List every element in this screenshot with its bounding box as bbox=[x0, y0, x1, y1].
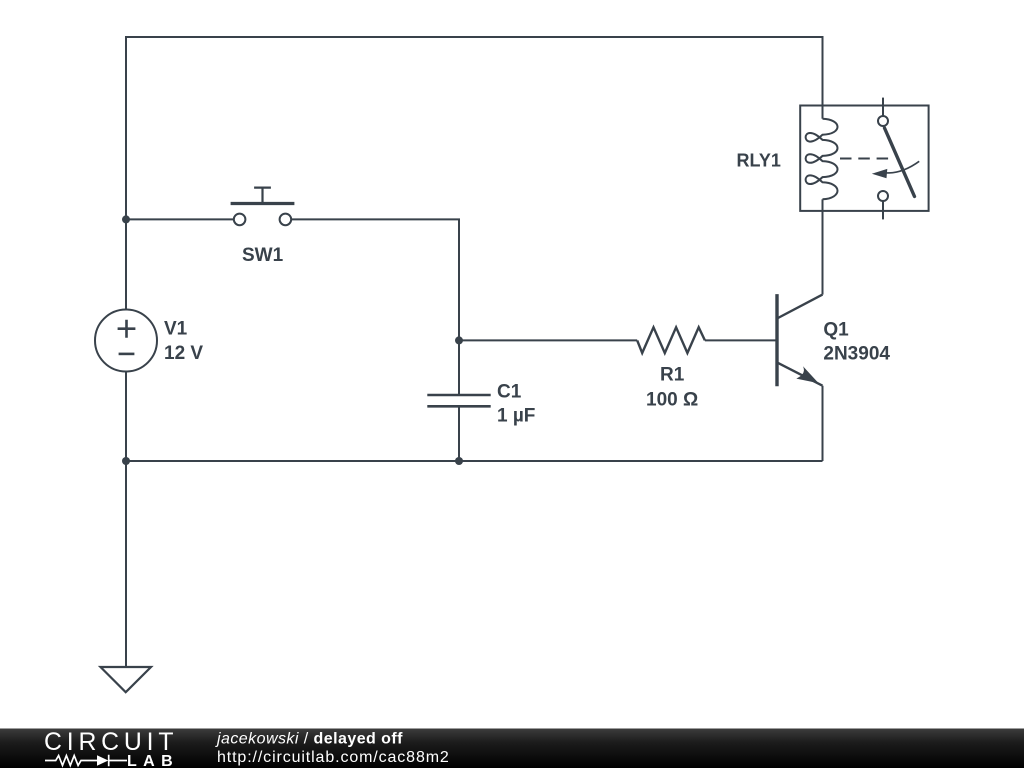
transistor Q1 bbox=[777, 294, 823, 386]
svg-text:jacekowski / delayed off: jacekowski / delayed off bbox=[215, 731, 403, 748]
svg-text:C1: C1 bbox=[497, 382, 522, 403]
node A2 junction dot bbox=[455, 457, 463, 465]
wire V1 bottom to node B bbox=[125, 372, 127, 462]
capacitor C1 bbox=[427, 395, 490, 406]
wire node A to R1 bbox=[459, 339, 637, 341]
wire node B to ground bbox=[125, 461, 127, 667]
wire C1 bottom lead bbox=[458, 408, 460, 462]
wire left rail upper bbox=[125, 36, 127, 310]
wire emitter to bottom rail bbox=[822, 386, 824, 461]
CircuitLab logo diode bbox=[97, 755, 108, 765]
svg-text:LAB: LAB bbox=[127, 753, 173, 768]
Q1 emitter arrow bbox=[796, 366, 818, 383]
relay RLY1 coil bbox=[806, 119, 838, 200]
svg-text:100 Ω: 100 Ω bbox=[646, 389, 698, 410]
footer bar bbox=[0, 729, 1024, 768]
wire SW1 left lead bbox=[126, 218, 234, 220]
CircuitLab logo squiggle bbox=[45, 755, 127, 766]
svg-text:http://circuitlab.com/cac88m2: http://circuitlab.com/cac88m2 bbox=[217, 749, 450, 766]
relay RLY1 blade bbox=[885, 128, 915, 197]
svg-text:1 µF: 1 µF bbox=[497, 406, 535, 427]
wire SW1 right lead to node A bbox=[291, 219, 459, 340]
node A junction dot bbox=[455, 336, 463, 344]
svg-text:V1: V1 bbox=[164, 319, 188, 340]
wire bottom rail bbox=[126, 460, 823, 462]
relay RLY1 box bbox=[800, 106, 928, 211]
wire R1 to Q1 base bbox=[705, 339, 776, 341]
ground bbox=[101, 667, 152, 692]
wire relay coil to collector bbox=[822, 199, 824, 294]
svg-text:RLY1: RLY1 bbox=[737, 150, 781, 170]
voltage source V1 bbox=[95, 310, 157, 372]
wire C1 top lead bbox=[458, 340, 460, 394]
relay RLY1 arrow bbox=[886, 161, 920, 173]
label R1 100ohm bbox=[646, 365, 698, 411]
node B junction dot bbox=[122, 457, 130, 465]
node SW junction dot bbox=[122, 215, 130, 223]
label V1 12 V bbox=[164, 319, 203, 365]
wire top rail bbox=[126, 36, 823, 38]
relay RLY1 contact terminals bbox=[878, 98, 888, 220]
svg-text:2N3904: 2N3904 bbox=[823, 344, 890, 365]
svg-text:SW1: SW1 bbox=[242, 245, 284, 266]
wire relay top drop bbox=[822, 36, 824, 119]
resistor R1 bbox=[637, 327, 705, 353]
svg-text:R1: R1 bbox=[660, 365, 685, 386]
relay RLY1 dashed link bbox=[840, 158, 889, 160]
svg-text:12 V: 12 V bbox=[164, 343, 203, 364]
label Q1 2N3904 bbox=[823, 320, 890, 365]
switch SW1 bbox=[231, 188, 295, 226]
svg-text:Q1: Q1 bbox=[823, 320, 849, 341]
label C1 1uF bbox=[497, 382, 535, 427]
